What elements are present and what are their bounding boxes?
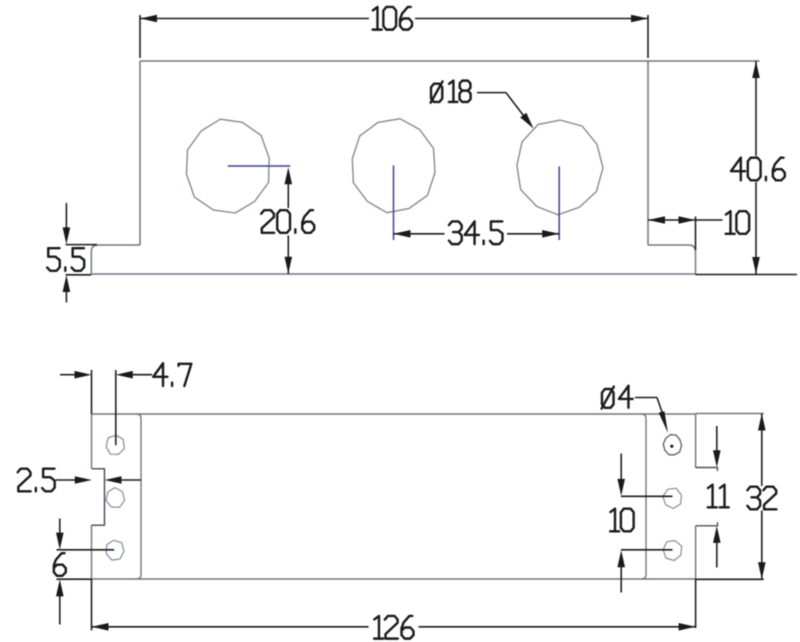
dimension 6 line and arrows — [56, 519, 64, 625]
dimension 6 extension lines — [57, 550, 115, 579]
dimension text 5.5 — [47, 248, 84, 271]
dimension text 34.5 — [449, 221, 503, 244]
hole center dot right top — [670, 445, 673, 448]
dimension text 10 (right) — [610, 509, 633, 532]
dimension 11 line and arrows — [713, 426, 721, 568]
dimension text 11 — [708, 485, 729, 508]
dimension 32 extension lines — [696, 414, 764, 580]
dimension 126 line and arrows — [92, 623, 696, 631]
dimension 10 extension line — [695, 217, 697, 251]
center line circle 3 (vertical) — [558, 166, 560, 240]
dimension 106 extension lines — [140, 15, 648, 58]
dimension text 40.6 — [731, 158, 785, 181]
center line circle 1 (horizontal) — [228, 165, 290, 167]
dimension text 106 — [373, 7, 412, 30]
dimension 32 line and arrows — [758, 414, 766, 580]
dimension 10 line and arrows — [648, 216, 723, 224]
dimension text 20.6 — [261, 210, 314, 233]
dimension 34.5 line and arrows — [394, 230, 560, 238]
center line circle 2 (vertical) — [393, 165, 395, 240]
dimension 4.7 extension lines — [92, 370, 116, 445]
mount hole left bottom — [106, 540, 124, 560]
top view housing outline — [91, 61, 695, 274]
mount hole left top — [106, 435, 124, 454]
label dia18 leader — [477, 93, 534, 129]
dimension text 32 — [747, 487, 776, 510]
hole circle 1 (left, dia 18) — [187, 119, 270, 213]
mount hole right top — [663, 435, 681, 455]
dimension text 4.7 — [153, 363, 191, 386]
dimension 126 extension lines — [92, 579, 696, 631]
dimension text 6 — [54, 553, 66, 576]
label dia4 leader — [635, 398, 668, 434]
dimension 20.6 line and arrows — [285, 167, 293, 274]
left notch outline — [92, 469, 105, 525]
dimension 10 right extension lines — [621, 496, 673, 550]
dimension 5.5 extension lines — [66, 245, 97, 275]
hole circle 3 (right, dia 18) — [517, 120, 603, 215]
dimension 40.6 line and arrows — [752, 61, 760, 274]
dimension text 126 — [374, 616, 413, 639]
label text dia4 — [602, 386, 633, 409]
dimension text 10 (flange) — [726, 211, 749, 234]
inner wall line left — [137, 414, 142, 579]
label text dia18 — [431, 81, 471, 103]
dimension 10 right line and arrows — [617, 454, 625, 593]
hole circle 2 (middle, dia 18) — [352, 119, 435, 213]
right tab outline — [696, 468, 718, 526]
mount hole left middle — [106, 488, 125, 508]
bottom view outer outline — [92, 414, 696, 579]
dimension 2.5 line and arrows — [56, 476, 141, 484]
mount hole right bottom — [663, 541, 682, 561]
mount hole right middle — [663, 488, 682, 508]
dimension 40.6 extension lines — [648, 61, 797, 275]
dimension 4.7 line and arrows — [60, 371, 152, 379]
dimension 5.5 line and arrows — [63, 203, 71, 303]
dimension text 2.5 — [18, 469, 55, 492]
dimension 106 line and arrows — [140, 15, 648, 23]
inner wall line right — [642, 414, 647, 579]
